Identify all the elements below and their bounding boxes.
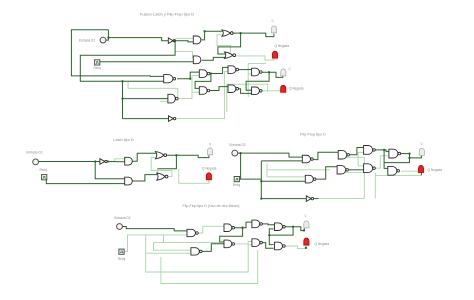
LED Q (gray) flip-flop	[419, 148, 424, 155]
wire D-not to AND1 upper input	[176, 37, 194, 39]
clock Reloj (4)	[119, 249, 124, 254]
NAND gate FF8	[388, 166, 400, 175]
junction NOT1 output	[174, 40, 176, 42]
LED Q (gray) bottom	[304, 221, 309, 228]
junction NAND5 output	[383, 149, 385, 151]
wire pin D2 to NAND1 bottom	[122, 227, 187, 231]
wire D branch to AND gate 2	[95, 162, 125, 179]
wire pale vertical feedback right	[374, 173, 376, 199]
svg-text:Flip-Flop tipo D: Flip-Flop tipo D	[300, 132, 326, 136]
wire feedback rail 1 to NAND2	[146, 252, 191, 254]
wire NOR latch 1 feedback down	[158, 155, 177, 168]
junction NOT2 branch	[121, 97, 123, 99]
wire inverted clock to NAND4	[337, 171, 364, 173]
wire NAND2 to NAND4	[316, 167, 337, 179]
wire NAND C output to NAND D	[210, 87, 228, 91]
wire NOT5 output stub	[314, 198, 319, 200]
svg-text:Q Negada: Q Negada	[202, 166, 217, 170]
NAND gate E	[252, 68, 263, 76]
NAND gate A	[199, 70, 210, 78]
wire jog to LED Q ff	[410, 156, 422, 158]
wire pale stub	[226, 84, 228, 112]
svg-text:Entrada D2: Entrada D2	[26, 151, 42, 155]
wire NAND A output to NAND C	[243, 222, 252, 228]
wire AND2 output to NOR2	[202, 57, 226, 60]
wire to NAND2 input bottom	[154, 242, 191, 250]
wire NAND n2 feedback loop	[128, 82, 178, 99]
wire cross stub to NAND6	[358, 165, 364, 167]
NAND gate bottom 1	[187, 229, 198, 236]
wire NAND D output to NAND F input	[262, 243, 274, 249]
NAND gate bottom E	[275, 223, 286, 231]
wire NOR latch 1 to LED Q latch	[166, 155, 209, 157]
junction NOR1 latch output	[175, 154, 177, 156]
junction NAND a output	[189, 78, 191, 80]
input pin Entrada D2 (3)	[232, 150, 238, 156]
wire feedback rail 2	[161, 250, 258, 283]
wire NAND F output to LED Q-negada 2	[261, 91, 283, 93]
wire pale crossing feedback	[227, 84, 268, 92]
wire NAND A output cross to NAND C	[195, 74, 211, 89]
NOR gate N1	[222, 30, 233, 36]
NAND gate FF4	[337, 166, 348, 174]
NAND gate F	[252, 87, 263, 95]
wire NOR2 feedback to NOR1 input	[217, 35, 230, 53]
wire AND latch 1 to NOR latch 1	[132, 153, 156, 161]
svg-text:Reloj: Reloj	[94, 66, 102, 70]
junction NAND A output bottom	[241, 227, 243, 229]
wire clock branch down	[163, 235, 165, 243]
wire NAND B output to NAND E	[238, 69, 252, 71]
svg-text:Flip-Flop tipo D (Uso de otro: Flip-Flop tipo D (Uso de otro flanco)	[183, 204, 240, 208]
wire NOR1 output to LED Q	[232, 33, 274, 37]
LED Q Negada (red) latch	[204, 172, 213, 182]
wire NAND5 branch to NAND8	[384, 150, 388, 169]
wire pale feedback under LED	[375, 174, 421, 176]
inverter NOT4 (latch)	[100, 159, 107, 165]
NAND gate FF5	[364, 146, 376, 155]
input pin Entrada D2 (1)	[100, 37, 106, 43]
wire cross branch to NAND E input	[269, 229, 273, 235]
wire NAND F output to LED Q negada bottom	[285, 246, 306, 249]
wire pale stub to NAND E input	[248, 73, 252, 75]
inverter NOT5 (clock)	[306, 196, 313, 202]
NAND gate B	[228, 66, 239, 74]
svg-text:Q: Q	[421, 141, 423, 145]
NAND gate FF2	[305, 175, 316, 183]
wire pale stub into NAND n2	[160, 100, 168, 102]
wire AND1 output to NOR1	[202, 31, 223, 40]
wire NAND6 output to NAND7	[376, 156, 389, 168]
wire clock latch to AND gate 2	[46, 180, 124, 184]
junction clock riser	[260, 180, 262, 182]
AND gate latch 1	[125, 157, 133, 165]
svg-text:Reloj: Reloj	[233, 183, 241, 187]
wire NOT1 output to AND1 input	[175, 41, 193, 42]
wire pale feedback vertical	[247, 63, 249, 97]
wire NAND E output cross to NAND F	[269, 227, 293, 245]
wire tick under LED Q negada ff	[420, 173, 422, 176]
wire NOR1 output feedback to NOR2	[218, 33, 241, 54]
wire into NOT3	[123, 118, 169, 120]
NAND gate FF1	[302, 155, 313, 163]
wire NAND B output to NAND D	[234, 243, 252, 246]
junction AND1-NOR1	[203, 30, 205, 32]
junction NAND A output	[210, 72, 212, 74]
wire NOT4 out to AND1 lower input	[108, 161, 125, 163]
junction NOR1 output	[239, 32, 241, 34]
wire inverted clock rail	[319, 198, 365, 200]
LED Q Negada (red) bottom	[302, 238, 311, 248]
junction NAND E output	[268, 71, 270, 73]
svg-text:Q: Q	[209, 142, 211, 146]
wire clock to riser	[241, 178, 262, 180]
svg-text:Entrada D2: Entrada D2	[229, 143, 245, 147]
wire pale stub to NOR2 input	[157, 169, 159, 175]
wire NAND n2 output to NAND A input	[178, 76, 199, 99]
wire into NAND n2	[123, 98, 168, 100]
clock Reloj (1)	[95, 60, 100, 65]
NAND gate a (clocked)	[164, 75, 176, 83]
AND gate A1	[193, 36, 201, 44]
svg-text:Entrada D2: Entrada D2	[114, 216, 130, 220]
junction NOT4 output	[107, 160, 109, 162]
svg-text:Latch tipo D: Latch tipo D	[113, 138, 134, 142]
wire pale stub master feedback	[266, 164, 268, 170]
NAND gate FF6	[364, 164, 376, 173]
svg-text:Q: Q	[305, 213, 307, 217]
wire vertical branch to clock row	[239, 153, 241, 179]
junction D latch	[94, 160, 96, 162]
wire to AND2 upper input	[175, 52, 193, 58]
wire NOT1 output routed to NAND a lower input	[80, 41, 175, 82]
svg-text:Entrada D2: Entrada D2	[79, 38, 95, 42]
LED Q Negada (red) flip-flop	[416, 165, 425, 175]
AND gate A2	[193, 56, 201, 64]
wire NAND A cross to NAND B	[220, 228, 243, 242]
svg-text:Q: Q	[272, 19, 274, 23]
wire from pin D2 latch	[39, 161, 100, 163]
wire NAND7 output	[401, 153, 410, 155]
clock Reloj (3)	[234, 177, 239, 182]
NAND gate C	[199, 87, 210, 95]
wire clock to AND2	[100, 61, 194, 63]
input pin Entrada D2 (2)	[33, 159, 39, 165]
wire NAND5 to NAND7	[376, 150, 389, 152]
NOR gate N2	[225, 52, 236, 58]
LED Q (gray) circuit 1	[271, 26, 276, 33]
wire clock riser vertical	[260, 161, 262, 199]
input pin Entrada D2 (4)	[117, 224, 123, 230]
NAND gate bottom D	[252, 239, 263, 247]
svg-text:Q Negada: Q Negada	[275, 44, 290, 48]
wire NAND3 to NAND5	[350, 148, 364, 155]
NAND gate FF7	[389, 149, 401, 158]
svg-text:Q Negada: Q Negada	[289, 86, 304, 90]
wire NAND C output to NAND E	[262, 223, 274, 226]
wire pale drop to LED	[178, 169, 180, 184]
inverter NOT1 (D)	[168, 38, 175, 44]
wire NAND A output to NAND B	[210, 67, 228, 73]
wire branch to NAND C input	[192, 91, 199, 93]
wire NAND7 feedback to NAND8	[384, 154, 409, 163]
LED Q (gray) latch	[207, 148, 212, 155]
svg-text:Fusion Latch y Flip-Flop tipo: Fusion Latch y Flip-Flop tipo D	[140, 12, 194, 17]
junction LED Q bottom	[303, 229, 305, 231]
NAND gate bottom A	[224, 224, 235, 232]
wire from input pin D2	[106, 30, 109, 40]
wire pale feedback horizontal	[248, 62, 266, 64]
wire NAND D output to NAND F	[238, 89, 252, 94]
wire NAND1 to NAND3	[313, 152, 338, 159]
junction D split	[107, 36, 109, 38]
wire NAND E output to LED Q bottom	[285, 227, 304, 231]
wire NOT3 output to NAND B input	[176, 72, 228, 119]
inverter NOT3	[169, 116, 176, 122]
svg-text:Q Negada: Q Negada	[315, 242, 330, 246]
wire pale to NAND2 input	[267, 170, 305, 177]
NAND gate D	[228, 85, 239, 93]
wire NAND2 output to NAND B	[202, 244, 224, 252]
junction NAND E output bottom	[292, 226, 294, 228]
wire NAND a output to NAND A	[177, 72, 199, 79]
junction D pin ff	[239, 152, 241, 154]
wire NAND E output feedback to NAND F	[246, 72, 269, 90]
wire pale master feedback	[267, 169, 330, 171]
wire cross stub to NAND5	[358, 151, 364, 153]
clock Reloj (2)	[42, 175, 47, 180]
junction NAND7 output	[408, 152, 410, 154]
wire clock to NAND2 lower input	[261, 180, 305, 182]
wire vertical branch to NOT gates	[122, 81, 124, 118]
NAND gate n2	[168, 94, 178, 103]
junction LED Q negada bottom	[305, 247, 307, 249]
wire clock rail to NOT5	[261, 198, 306, 200]
NAND gate bottom 2	[191, 248, 202, 255]
wire NOT4 out to AND gate upper input	[108, 159, 125, 162]
svg-text:Q: Q	[289, 67, 291, 71]
wire NAND1 output to NAND A bottom	[198, 226, 224, 233]
junction D-bar branch	[121, 80, 123, 82]
wire clock to NAND1 bottom circuit	[124, 235, 187, 252]
wire pin D2 to NAND1 flip-flop	[238, 153, 303, 157]
AND gate latch 2	[125, 177, 133, 185]
wire NAND4 to NAND6	[349, 169, 364, 171]
wire AND latch 2 to NOR latch 2	[132, 175, 157, 181]
LED Q Negada 2 (red) circuit 1	[279, 85, 288, 95]
junction clock rail	[260, 197, 262, 199]
NAND gate bottom F	[275, 242, 286, 250]
wire to LED Q negada latch	[179, 180, 209, 183]
wire D to NOT1	[108, 38, 168, 41]
svg-text:Reloj: Reloj	[118, 257, 126, 261]
NOR gate latch 1	[156, 152, 167, 159]
wire D rail to NAND a input	[71, 30, 163, 77]
junction LED branch ff	[408, 157, 410, 159]
NOR gate latch 2	[157, 173, 168, 180]
svg-text:Reloj: Reloj	[40, 168, 48, 172]
wire NOR2 output to LED Q-negada	[234, 56, 274, 60]
LED Q2 (gray) circuit 1	[281, 69, 286, 76]
junction cross bottom	[268, 234, 270, 236]
wire NAND E output to LED Q2	[262, 72, 283, 77]
NAND gate bottom B	[224, 240, 235, 248]
wire feedback rail 1	[146, 235, 252, 272]
wire clock to NAND1 lower input	[261, 160, 302, 162]
wire NOR output cross feedback up	[151, 157, 172, 176]
NAND gate bottom C	[252, 220, 263, 228]
svg-text:Q Negada: Q Negada	[428, 168, 443, 172]
wire NAND8 output to LED Q negada ff	[401, 171, 422, 172]
wire feedback to NAND B input	[154, 241, 220, 243]
wire inverted clock to NAND3	[338, 157, 364, 198]
wire cross-couple NAND5/6 vertical	[357, 152, 359, 166]
LED Q Negada (red) circuit 1	[270, 51, 279, 61]
NAND gate FF3	[338, 151, 349, 159]
